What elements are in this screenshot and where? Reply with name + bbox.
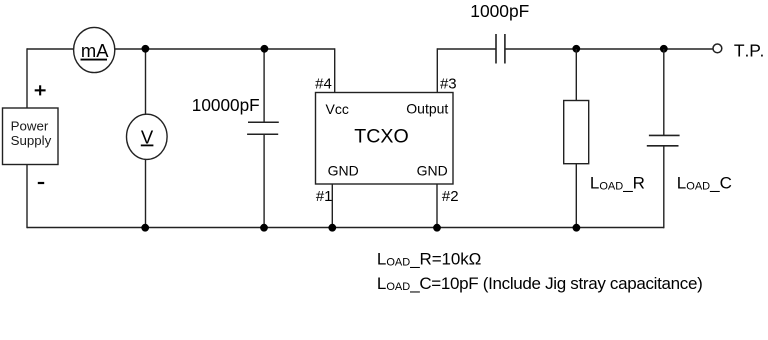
voltmeter M2 (V)	[127, 114, 168, 159]
wire: pin #3 to output rail	[436, 48, 438, 92]
svg-text:LOAD_R=10kΩ: LOAD_R=10kΩ	[377, 249, 481, 268]
junction: bottom rail / load resistor	[573, 224, 581, 232]
svg-text:#3: #3	[440, 75, 457, 92]
wire: left vertical from top rail to Power Supply + terminal	[26, 48, 28, 108]
wire: pin #2 to bottom rail	[436, 184, 438, 228]
svg-text:#2: #2	[442, 188, 459, 205]
wire: load resistor branch bottom	[575, 164, 577, 228]
wire: pin #1 to bottom rail	[331, 184, 333, 228]
power supply PS1	[3, 108, 59, 165]
wire: load capacitor branch top	[663, 49, 665, 228]
label: + terminal	[35, 85, 46, 95]
junction: output rail / load resistor	[572, 45, 580, 53]
svg-text:LOAD_R: LOAD_R	[590, 173, 645, 192]
junction: top rail / voltmeter	[142, 45, 150, 53]
ammeter M1 (mA)	[74, 27, 115, 72]
wire: output rail from pin #3 through C2 to test point	[437, 48, 712, 50]
svg-text:Output: Output	[406, 101, 448, 117]
svg-text:LOAD_C: LOAD_C	[677, 173, 732, 192]
junction: bottom rail / voltmeter	[141, 224, 149, 232]
junction: top rail / C1	[261, 45, 269, 53]
wire: pin #4 to top rail	[334, 48, 336, 92]
wire: load resistor branch top	[575, 49, 577, 101]
svg-text:Power: Power	[11, 118, 49, 133]
wire: Power Supply - terminal to bottom rail	[26, 165, 28, 229]
wire: voltmeter branch	[145, 49, 147, 228]
svg-text:mA: mA	[81, 40, 109, 61]
svg-text:GND: GND	[328, 163, 359, 179]
capacitor C_LOAD (plates)	[647, 135, 680, 145]
svg-text:V: V	[141, 126, 154, 147]
TCXO U1	[316, 93, 454, 185]
junction: output rail / load capacitor	[660, 45, 668, 53]
label: - terminal	[38, 182, 44, 184]
svg-text:#4: #4	[315, 76, 332, 93]
svg-text:TCXO: TCXO	[354, 126, 408, 148]
resistor R_LOAD	[564, 101, 589, 164]
svg-text:1000pF: 1000pF	[470, 1, 529, 21]
svg-text:Vcc: Vcc	[326, 101, 349, 117]
wire: bottom ground rail	[27, 227, 664, 229]
svg-text:#1: #1	[316, 188, 333, 205]
wire: top rail from power supply to TCXO pin #4	[27, 48, 335, 50]
svg-text:Supply: Supply	[11, 133, 52, 148]
test point terminal T.P.	[713, 44, 722, 53]
svg-text:GND: GND	[417, 163, 448, 179]
svg-text:LOAD_C=10pF (Include Jig stray: LOAD_C=10pF (Include Jig stray capacitan…	[377, 274, 703, 293]
svg-text:10000pF: 10000pF	[192, 95, 260, 115]
junction: bottom rail / pin #1	[328, 224, 336, 232]
svg-text:T.P.: T.P.	[734, 40, 764, 60]
junction: bottom rail / pin #2	[433, 224, 441, 232]
capacitor C1 10000pF (wires and plates)	[247, 49, 279, 228]
junction: bottom rail / C1	[260, 224, 268, 232]
capacitor C2 1000pF (plates)	[496, 34, 505, 64]
